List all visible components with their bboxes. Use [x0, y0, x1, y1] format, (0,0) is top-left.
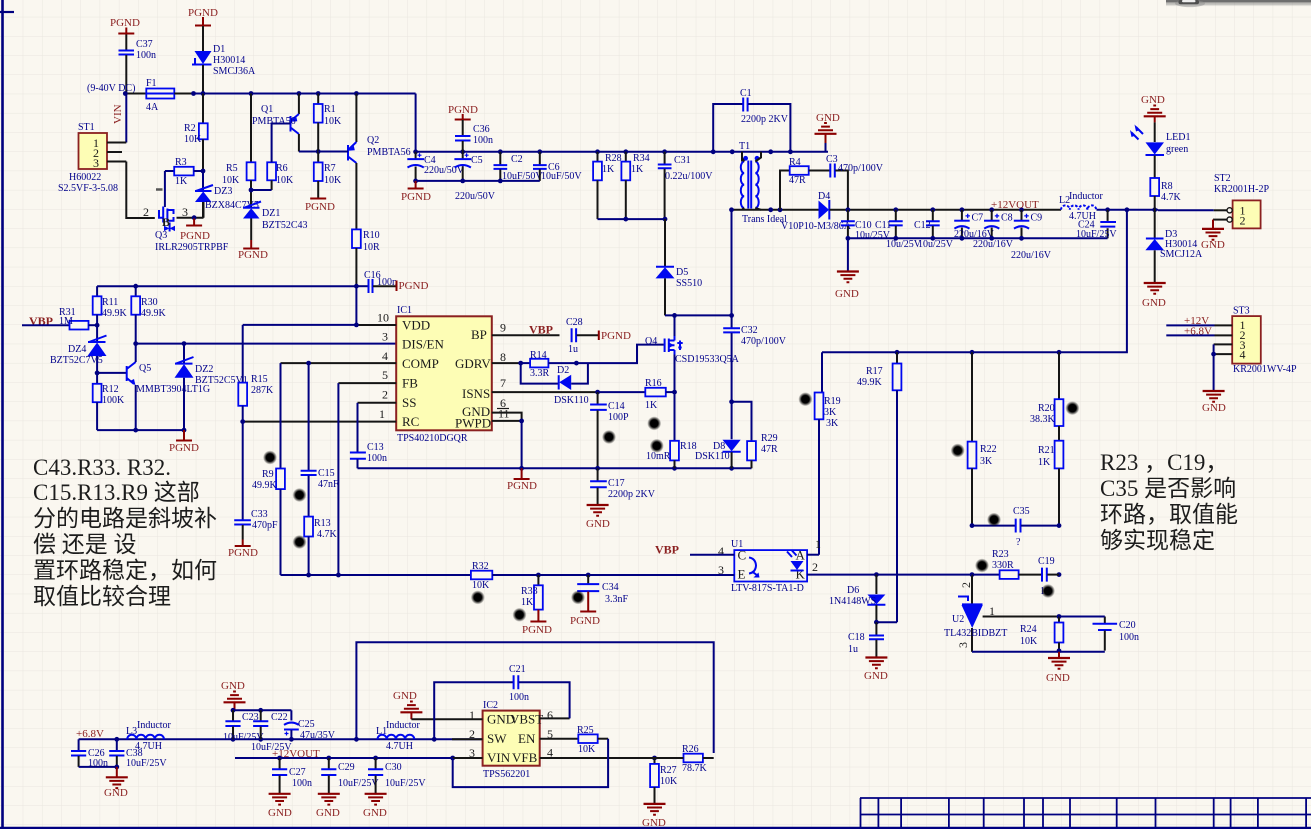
svg-text:1: 1	[989, 604, 995, 618]
capacitor C29	[321, 758, 379, 793]
svg-text:Inductor: Inductor	[386, 720, 421, 731]
svg-text:470pF: 470pF	[252, 520, 278, 531]
svg-text:D2: D2	[557, 365, 569, 376]
svg-text:(9-40V DC): (9-40V DC)	[87, 83, 135, 94]
note text (chinese annotation left)	[33, 455, 217, 609]
svg-text:10uF/25V: 10uF/25V	[126, 758, 167, 769]
capacitor C35	[970, 506, 1062, 548]
svg-text:R21: R21	[1038, 445, 1055, 456]
svg-text:C8: C8	[1001, 213, 1013, 224]
svg-text:PGND: PGND	[305, 201, 335, 213]
svg-text:分的电路是斜坡补: 分的电路是斜坡补	[33, 506, 217, 531]
capacitor C17	[590, 468, 656, 504]
svg-text:LED1: LED1	[1166, 132, 1190, 143]
svg-text:C37: C37	[136, 39, 153, 50]
svg-text:GND: GND	[221, 680, 245, 692]
svg-text:R17: R17	[866, 366, 883, 377]
svg-text:R33: R33	[521, 586, 538, 597]
svg-text:C29: C29	[338, 762, 355, 773]
svg-text:BZT52C43: BZT52C43	[262, 220, 308, 231]
power port GND (right of C1)	[815, 112, 840, 152]
svg-text:R29: R29	[761, 433, 778, 444]
svg-text:100n: 100n	[292, 778, 312, 789]
svg-text:GND: GND	[104, 787, 128, 799]
wire switch node row	[665, 314, 732, 316]
inductor L3	[126, 720, 172, 752]
resistor R10	[352, 229, 380, 286]
pin ST3-2 wire	[1215, 334, 1233, 336]
capacitor C26	[71, 739, 108, 769]
svg-text:C28: C28	[566, 317, 583, 328]
svg-text:PGND: PGND	[238, 249, 268, 261]
svg-text:38.3K: 38.3K	[1030, 414, 1056, 425]
svg-text:S2.5VF-3-5.08: S2.5VF-3-5.08	[58, 183, 118, 194]
net label PGND (C28)	[599, 330, 631, 342]
resistor R32	[471, 561, 734, 591]
resistor R28	[593, 152, 622, 219]
svg-text:PWPD: PWPD	[455, 416, 491, 431]
svg-text:1K: 1K	[175, 176, 188, 187]
resistor R20	[1030, 352, 1063, 440]
svg-text:IRLR2905TRPBF: IRLR2905TRPBF	[155, 242, 229, 253]
wire C4/C36 rail	[416, 151, 828, 153]
svg-text:SS510: SS510	[676, 278, 702, 289]
connector ST1	[58, 122, 118, 194]
svg-text:C5: C5	[471, 155, 483, 166]
capacitor C14	[590, 392, 629, 468]
svg-text:Q4: Q4	[645, 336, 657, 347]
power port GND (above C23)	[221, 680, 246, 710]
resistor R5	[222, 94, 255, 208]
svg-text:1K: 1K	[1038, 457, 1051, 468]
resistor R27	[650, 758, 678, 803]
power port GND (above IC2)	[393, 690, 422, 719]
svg-text:1: 1	[379, 407, 385, 421]
svg-text:R25: R25	[577, 725, 594, 736]
svg-text:49.9K: 49.9K	[141, 308, 167, 319]
svg-text:Inductor: Inductor	[1069, 191, 1104, 202]
svg-text:BZT52C7V5: BZT52C7V5	[50, 355, 103, 366]
svg-text:C25: C25	[298, 719, 315, 730]
svg-text:PGND: PGND	[228, 547, 258, 559]
resistor R8	[1150, 178, 1181, 210]
wire SS column to C13	[357, 403, 359, 452]
svg-text:R1: R1	[324, 104, 336, 115]
svg-text:T1: T1	[739, 141, 750, 152]
resistor R2	[184, 94, 208, 172]
zener DZ4	[50, 325, 107, 373]
svg-text:+6.8V: +6.8V	[76, 728, 104, 740]
wire R23 row	[972, 574, 1000, 576]
svg-text:100n: 100n	[377, 277, 397, 288]
resistor R33	[521, 575, 552, 636]
svg-text:C19: C19	[1038, 556, 1055, 567]
svg-text:R2: R2	[184, 123, 196, 134]
capacitor C22	[251, 710, 292, 753]
svg-text:KR2001H-2P: KR2001H-2P	[1214, 184, 1269, 195]
IC IC2 TPS562201	[483, 700, 544, 780]
svg-text:9: 9	[500, 321, 506, 335]
svg-text:IC1: IC1	[397, 305, 412, 316]
capacitor C2	[494, 152, 544, 182]
wire DIS/EN row	[136, 343, 397, 345]
svg-text:10K: 10K	[324, 116, 342, 127]
svg-text:FB: FB	[402, 376, 418, 391]
zener DZ2	[175, 344, 248, 431]
power port PGND (above D1)	[188, 7, 218, 26]
power port PGND (under DZ1)	[238, 240, 268, 261]
resistor R15	[238, 325, 274, 422]
svg-text:C12: C12	[914, 220, 931, 231]
sheet border left	[1, 0, 4, 829]
resistor R31	[22, 307, 97, 330]
pin IC1-10	[356, 311, 396, 326]
wire VDD row left	[243, 324, 357, 326]
wire C26/C38 bottom	[79, 766, 117, 768]
pin ST1-3	[107, 161, 126, 163]
svg-text:偿 还是 设: 偿 还是 设	[33, 532, 137, 557]
svg-text:R11: R11	[102, 297, 118, 308]
wire T1 primary bottom to switch node	[731, 210, 733, 316]
svg-text:C9: C9	[1031, 213, 1043, 224]
wire Q1 collector to Q2 base row	[299, 151, 347, 153]
svg-text:R23: R23	[992, 549, 1009, 560]
capacitor C25 (polarized)	[284, 710, 336, 741]
svg-text:C36: C36	[473, 124, 490, 135]
power port PGND (under IC1)	[507, 468, 537, 492]
resistor R1	[314, 94, 342, 152]
resistor R23	[992, 549, 1042, 579]
svg-text:7: 7	[500, 376, 506, 390]
capacitor C20	[1093, 617, 1140, 651]
smudge dots (artifacts)	[263, 392, 1079, 622]
svg-text:U1: U1	[731, 539, 743, 550]
diode D5	[656, 219, 703, 315]
capacitor C15	[301, 363, 339, 516]
svg-text:R24: R24	[1020, 624, 1037, 635]
svg-text:10K: 10K	[660, 776, 678, 787]
svg-text:VBST: VBST	[510, 712, 543, 727]
fuse F1	[125, 78, 193, 113]
svg-text:TL432BIDBZT: TL432BIDBZT	[944, 628, 1007, 639]
svg-text:GND: GND	[1141, 94, 1165, 106]
svg-text:C3: C3	[826, 154, 838, 165]
node DZ4/R12/Q5	[95, 371, 100, 376]
svg-text:VIN: VIN	[112, 104, 124, 124]
svg-text:GND: GND	[1142, 297, 1166, 309]
svg-text:PGND: PGND	[180, 230, 210, 242]
svg-text:KR2001WV-4P: KR2001WV-4P	[1233, 364, 1297, 375]
power port GND (under C27)	[268, 794, 292, 819]
svg-text:GND: GND	[1046, 672, 1070, 684]
svg-text:R13: R13	[314, 518, 331, 529]
svg-text:Q5: Q5	[139, 363, 151, 374]
svg-text:DZ4: DZ4	[68, 344, 86, 355]
svg-text:取值比较合理: 取值比较合理	[33, 584, 171, 609]
pin IC1-3	[382, 330, 388, 344]
resistor R13	[304, 517, 337, 575]
capacitor C23	[223, 710, 264, 743]
svg-text:ST1: ST1	[78, 122, 95, 133]
svg-text:5: 5	[382, 368, 388, 382]
resistor R30	[131, 286, 166, 343]
svg-text:F1: F1	[146, 78, 157, 89]
power port GND (under U2 rail)	[1046, 652, 1070, 684]
resistor R26	[655, 744, 714, 774]
wire +12VOUT to feedback rail	[822, 210, 1127, 352]
wire GDRV to Q4 gate	[576, 345, 663, 364]
resistor R17	[857, 352, 901, 622]
svg-text:100n: 100n	[1119, 632, 1139, 643]
svg-text:B: B	[162, 215, 170, 229]
capacitor C32	[723, 315, 787, 401]
svg-text:EN: EN	[518, 731, 536, 746]
capacitor C21	[434, 664, 569, 739]
svg-text:L3: L3	[126, 726, 137, 737]
resistor R7	[314, 152, 342, 199]
sheet border top-left stub	[0, 11, 14, 13]
svg-text:DSK110: DSK110	[554, 395, 589, 406]
node C32/D8/R29	[729, 399, 734, 404]
svg-text:PGND: PGND	[110, 17, 140, 29]
wire T1 bottom row	[732, 209, 819, 211]
svg-text:PGND: PGND	[601, 330, 631, 342]
capacitor C18	[848, 622, 884, 657]
capacitor C4 (polarized)	[407, 152, 464, 181]
svg-text:C22: C22	[271, 712, 288, 723]
svg-text:220u/16V: 220u/16V	[973, 239, 1014, 250]
pin ST1-2	[107, 151, 122, 153]
capacitor C5 (polarized)	[454, 152, 495, 202]
svg-text:R10: R10	[363, 230, 380, 241]
svg-text:C32: C32	[741, 325, 758, 336]
svg-text:GND: GND	[363, 807, 387, 819]
svg-text:RC: RC	[402, 414, 419, 429]
power port GND (under C10)	[835, 238, 859, 300]
power port GND (under C38)	[104, 767, 128, 799]
svg-text:2: 2	[143, 205, 149, 219]
svg-text:1u: 1u	[848, 644, 858, 655]
svg-text:TPS562201: TPS562201	[483, 769, 530, 780]
svg-text:C7: C7	[972, 213, 984, 224]
svg-text:R23 ，C19，: R23 ，C19，	[1100, 450, 1228, 475]
svg-text:D4: D4	[818, 191, 830, 202]
svg-text:PGND: PGND	[169, 442, 199, 454]
wire +6.8V row	[79, 738, 483, 740]
svg-text:78.7K: 78.7K	[682, 763, 708, 774]
svg-text:DZ2: DZ2	[195, 364, 213, 375]
capacitor C38	[109, 739, 167, 769]
transistor Q3	[155, 207, 229, 254]
svg-text:R3: R3	[175, 157, 187, 168]
pin ST3-3 wire	[1214, 343, 1233, 345]
svg-text:Inductor: Inductor	[137, 720, 172, 731]
svg-text:47u/35V: 47u/35V	[300, 730, 336, 741]
svg-text:R14: R14	[530, 350, 547, 361]
svg-text:Q1: Q1	[261, 104, 273, 115]
resistor R18	[646, 392, 697, 468]
svg-text:3: 3	[382, 330, 388, 344]
wire Q5 network bottom rail	[97, 429, 184, 431]
resistor R19	[815, 352, 841, 554]
svg-text:2: 2	[382, 388, 388, 402]
resistor R24	[1020, 617, 1063, 651]
svg-text:C1: C1	[740, 88, 752, 99]
power port PGND (under C4 rail)	[401, 181, 431, 203]
svg-text:R6: R6	[276, 163, 288, 174]
svg-text:1K: 1K	[645, 400, 658, 411]
svg-text:1u: 1u	[568, 344, 578, 355]
wire R28/R34/C31 bottom rail	[598, 218, 666, 220]
svg-text:ST2: ST2	[1214, 173, 1231, 184]
svg-text:3K: 3K	[824, 407, 837, 418]
connector ST3	[1232, 306, 1297, 376]
svg-text:10mR: 10mR	[646, 451, 671, 462]
svg-text:Q3: Q3	[155, 230, 167, 241]
svg-text:C2: C2	[511, 154, 523, 165]
svg-text:R28: R28	[605, 153, 622, 164]
wire PWPD to PGND rail	[521, 421, 523, 468]
svg-text:VDD: VDD	[402, 318, 430, 333]
pin IC2-1	[411, 708, 482, 722]
svg-text:49.9K: 49.9K	[857, 377, 883, 388]
svg-text:4.7UH: 4.7UH	[386, 741, 413, 752]
wire R5/R6 bottoms	[251, 189, 272, 191]
gate stub mark	[156, 188, 163, 191]
svg-text:SMCJ12A: SMCJ12A	[1160, 249, 1203, 260]
svg-text:C18: C18	[848, 632, 865, 643]
optocoupler U1	[731, 539, 807, 594]
svg-text:PGND: PGND	[507, 480, 537, 492]
svg-text:ISNS: ISNS	[462, 386, 490, 401]
wire U2 anode rail	[972, 617, 1105, 652]
resistor R25	[577, 725, 608, 755]
svg-text:H60022: H60022	[69, 172, 101, 183]
transistor Q5	[97, 344, 210, 431]
svg-text:1N4148WS: 1N4148WS	[829, 596, 876, 607]
node R11/R31	[95, 323, 100, 328]
svg-text:够实现稳定: 够实现稳定	[1100, 528, 1215, 553]
capacitor C30	[368, 758, 426, 793]
svg-text:SS: SS	[402, 395, 416, 410]
pin ST1-1	[107, 142, 126, 144]
UI overlay blob top-right	[1166, 0, 1311, 7]
resistor R6	[267, 162, 294, 190]
power port GND (above LED1)	[1141, 94, 1166, 122]
svg-text:2: 2	[959, 582, 973, 588]
svg-text:SW: SW	[487, 731, 507, 746]
power port GND (under C17)	[586, 505, 610, 530]
svg-text:GND: GND	[1201, 239, 1225, 251]
resistor R12	[93, 373, 125, 430]
capacitor C12	[914, 210, 954, 250]
svg-text:PGND: PGND	[399, 280, 429, 292]
capacitor C36	[455, 120, 493, 152]
svg-text:100n: 100n	[473, 135, 493, 146]
sheet border bottom-left stub	[0, 827, 1311, 829]
net label PGND at C16	[397, 280, 429, 292]
svg-text:GND: GND	[864, 670, 888, 682]
svg-text:C15: C15	[318, 468, 335, 479]
svg-text:10K: 10K	[222, 175, 240, 186]
node R2/R3/DZ3	[201, 169, 206, 174]
svg-text:10u/25V: 10u/25V	[918, 239, 954, 250]
svg-text:C35 是否影响: C35 是否影响	[1100, 476, 1236, 501]
zener DZ3	[195, 171, 259, 218]
svg-text:3: 3	[956, 642, 970, 648]
svg-text:4.7UH: 4.7UH	[135, 741, 162, 752]
power port GND (under ST3)	[1202, 354, 1226, 414]
svg-text:E: E	[738, 567, 746, 582]
power port GND (under D3)	[1142, 283, 1166, 309]
svg-text:1K: 1K	[631, 164, 644, 175]
wire output caps bottom rail	[848, 237, 1108, 239]
capacitor C8 (polarized)	[973, 210, 1014, 250]
svg-text:GND: GND	[642, 817, 666, 829]
resistor R11	[93, 286, 128, 325]
svg-text:R32: R32	[472, 561, 489, 572]
capacitor C10	[841, 210, 891, 241]
power port PGND (under R7)	[305, 199, 335, 214]
capacitor C31	[658, 152, 713, 219]
power port GND (under ST2)	[1201, 229, 1225, 251]
wire FB column	[337, 383, 339, 575]
svg-text:49.9K: 49.9K	[252, 480, 278, 491]
svg-text:C30: C30	[385, 762, 402, 773]
svg-text:R16: R16	[645, 378, 662, 389]
power port GND (under C18)	[864, 658, 888, 683]
svg-text:R5: R5	[226, 163, 238, 174]
pin IC2-4	[540, 746, 655, 760]
capacitor C16	[356, 270, 397, 325]
note text (chinese annotation right)	[1100, 450, 1238, 553]
zener DZ1	[243, 202, 308, 241]
wire U2 ref junction	[1057, 614, 1062, 619]
svg-text:C35: C35	[1013, 506, 1030, 517]
svg-text:0.22u/100V: 0.22u/100V	[665, 171, 713, 182]
svg-text:R8: R8	[1161, 181, 1173, 192]
resistor R4	[780, 157, 830, 210]
IC IC1 TPS40210DGQR	[396, 305, 492, 444]
node dots input rail	[123, 91, 359, 96]
svg-text:287K: 287K	[251, 385, 274, 396]
svg-text:R26: R26	[682, 744, 699, 755]
wire R3 to Q3 gate	[164, 171, 166, 207]
svg-text:2: 2	[812, 560, 818, 574]
svg-text:PGND: PGND	[522, 624, 552, 636]
svg-text:D5: D5	[676, 267, 688, 278]
inductor L1	[376, 720, 421, 752]
svg-text:4.7K: 4.7K	[1161, 192, 1182, 203]
svg-text:+12VOUT: +12VOUT	[991, 199, 1039, 211]
resistor R34	[621, 152, 649, 219]
svg-text:6: 6	[547, 708, 553, 722]
svg-text:1K: 1K	[602, 164, 615, 175]
pin ST3-1 wire	[1215, 324, 1233, 326]
svg-text:3K: 3K	[826, 418, 839, 429]
svg-text:8: 8	[500, 350, 506, 364]
svg-text:3.3nF: 3.3nF	[605, 594, 629, 605]
svg-text:DZ3: DZ3	[214, 186, 232, 197]
svg-text:10uF/25V: 10uF/25V	[385, 778, 426, 789]
capacitor C34	[570, 575, 629, 627]
inductor L2	[1059, 191, 1104, 222]
capacitor C27	[272, 758, 312, 793]
diode D2	[521, 363, 589, 406]
wire PGND rail (IC1 bottom)	[358, 467, 752, 469]
power port PGND (under C33)	[228, 540, 258, 560]
pin IC1-1	[243, 407, 397, 422]
